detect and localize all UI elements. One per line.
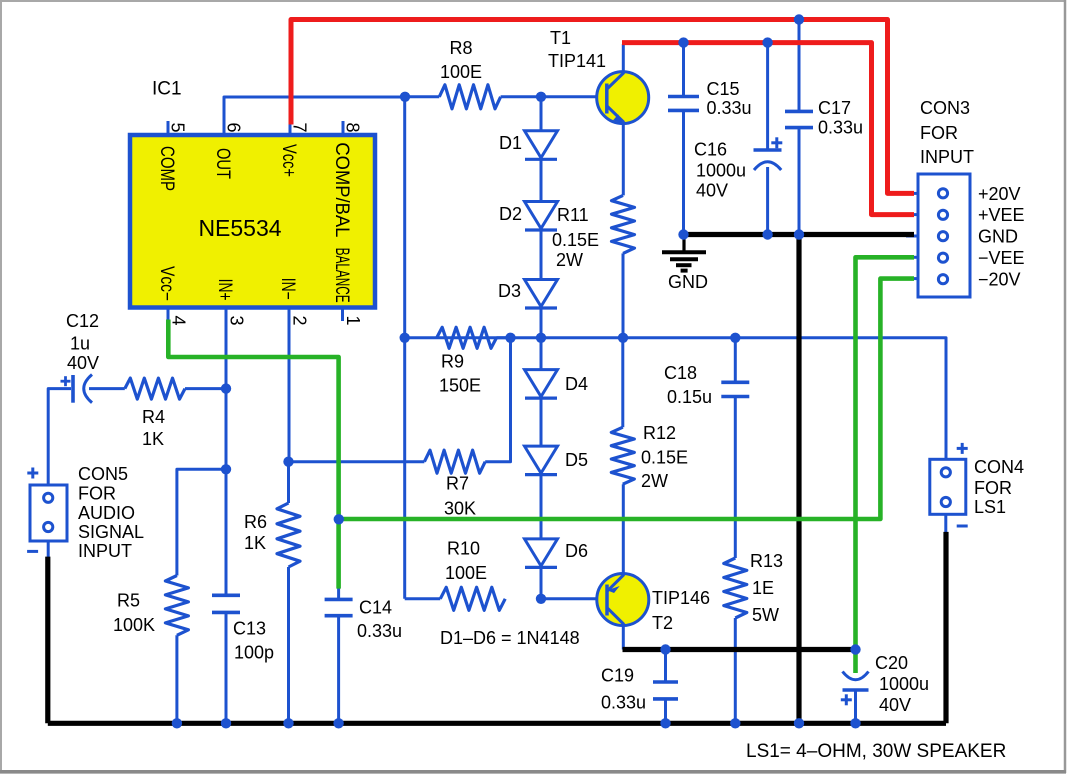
wire +VEE red: [622, 43, 914, 215]
resistor R11: [612, 195, 635, 253]
junction rail C18: [730, 333, 740, 343]
svg-text:R8: R8: [449, 38, 472, 58]
svg-text:C20: C20: [875, 653, 908, 673]
svg-text:Vcc−: Vcc−: [156, 266, 177, 301]
wire D5 to D6: [540, 475, 543, 539]
svg-text:0.15E: 0.15E: [552, 230, 599, 250]
pin 3 stub: [225, 306, 228, 322]
svg-text:100E: 100E: [445, 563, 487, 583]
op-amp IC1 NE5534 body: [130, 135, 375, 308]
CON5 plus sign: [27, 472, 38, 475]
wire T2 collector down: [622, 625, 625, 650]
wire -20V green: [339, 279, 914, 519]
svg-text:INPUT: INPUT: [920, 147, 974, 167]
svg-text:1000u: 1000u: [696, 161, 746, 181]
svg-text:6: 6: [224, 123, 244, 133]
wire output rail: [405, 338, 946, 460]
resistor R6: [277, 503, 300, 567]
svg-text:5: 5: [168, 123, 188, 133]
pin 7 stub: [289, 124, 292, 137]
svg-text:D1–D6 = 1N4148: D1–D6 = 1N4148: [440, 628, 580, 648]
wire CON4 bottom stub: [944, 514, 947, 533]
capacitor C20 polarized: [843, 672, 869, 680]
svg-text:R5: R5: [117, 591, 140, 611]
resistor R4: [125, 378, 185, 399]
ground symbol GND: [682, 236, 685, 252]
wire D2 to D3: [540, 231, 543, 280]
connector CON4 body: [930, 459, 966, 514]
wire black vertical GND to bus: [796, 235, 801, 724]
diode D5: [525, 446, 558, 473]
resistor R13: [724, 558, 747, 618]
capacitor C12 polarized: [71, 375, 75, 403]
svg-text:D3: D3: [498, 281, 521, 301]
svg-text:100p: 100p: [234, 642, 274, 662]
pin 4 stub: [167, 306, 170, 322]
wire C17 top lead: [798, 20, 801, 112]
capacitor C18: [721, 380, 749, 384]
wire C15 top lead: [682, 43, 685, 97]
junction bus C14: [333, 718, 343, 728]
wire C12 to R4: [89, 387, 125, 390]
svg-text:T1: T1: [550, 28, 571, 48]
svg-text:2: 2: [290, 316, 310, 326]
wire R9 right to R7: [485, 338, 510, 462]
wire T1 collector up: [622, 44, 625, 73]
svg-text:INPUT: INPUT: [78, 541, 132, 561]
svg-text:1E: 1E: [752, 578, 774, 598]
wire D6 to R10 node: [540, 568, 543, 599]
wire rail to C18: [734, 338, 737, 383]
svg-text:IN+: IN+: [214, 279, 235, 301]
svg-text:AUDIO: AUDIO: [78, 503, 135, 523]
junction C16 GND: [762, 229, 772, 239]
capacitor C13: [212, 593, 240, 597]
svg-text:R7: R7: [446, 474, 469, 494]
svg-text:0.33u: 0.33u: [818, 118, 863, 138]
capacitor C14: [325, 598, 353, 602]
wire C16 top lead: [766, 43, 769, 150]
svg-text:IC1: IC1: [152, 79, 182, 100]
svg-text:NE5534: NE5534: [198, 215, 281, 241]
wire D1 top: [540, 97, 543, 131]
wire R5 to bus: [175, 635, 178, 723]
svg-text:150E: 150E: [439, 376, 481, 396]
resistor R10: [440, 587, 505, 610]
svg-text:GND: GND: [978, 227, 1018, 247]
svg-text:1K: 1K: [142, 429, 164, 449]
wire C13 to bus: [225, 612, 228, 723]
junction C16 +VEE: [762, 37, 772, 47]
junction C15 +VEE: [678, 37, 688, 47]
wire pin4 green: [168, 320, 338, 589]
wire R7 left to IN-: [289, 460, 425, 463]
svg-text:100K: 100K: [113, 615, 155, 635]
wire R6 to bus: [287, 567, 290, 723]
junction rail D4: [536, 333, 546, 343]
svg-text:R9: R9: [441, 352, 464, 372]
svg-text:1u: 1u: [70, 334, 90, 354]
wire IN+ vertical: [225, 307, 228, 595]
wire D4 to D5: [540, 399, 543, 447]
svg-text:LS1= 4–OHM, 30W SPEAKER: LS1= 4–OHM, 30W SPEAKER: [746, 741, 1006, 762]
svg-text:C13: C13: [233, 618, 266, 638]
wire C17 to GND line: [798, 128, 801, 235]
junction C17 GND: [794, 229, 804, 239]
capacitor C16 polarized: [754, 148, 782, 152]
resistor R7: [424, 450, 485, 473]
wire CON5 plus to C12: [48, 389, 71, 485]
svg-text:R6: R6: [244, 512, 267, 532]
junction IN+ R5 branch: [221, 464, 231, 474]
junction C19 top: [660, 644, 670, 654]
junction bus GND line: [794, 718, 804, 728]
junction IN- node: [283, 457, 293, 467]
wire -VEE green: [856, 257, 915, 673]
svg-text:FOR: FOR: [974, 478, 1012, 498]
wire C20 to bus: [854, 690, 857, 723]
resistor R9: [437, 327, 497, 348]
junction C15 GND: [678, 229, 688, 239]
wire C15 to GND line: [682, 110, 685, 234]
svg-text:BALANCE: BALANCE: [331, 248, 352, 303]
svg-text:C12: C12: [66, 311, 99, 331]
junction rail left: [400, 333, 410, 343]
svg-text:D2: D2: [499, 204, 522, 224]
wire C14 to bus: [337, 616, 340, 724]
svg-text:COMP/BAL: COMP/BAL: [331, 142, 352, 237]
wire R13 to bus: [734, 618, 737, 723]
svg-text:LS1: LS1: [974, 497, 1006, 517]
svg-text:D1: D1: [499, 133, 522, 153]
junction bus R13: [730, 718, 740, 728]
svg-text:T2: T2: [652, 613, 673, 633]
capacitor C17: [785, 110, 813, 114]
wire IN- vertical: [288, 307, 291, 462]
wire R11 to output rail: [622, 253, 625, 337]
pin 2 stub: [288, 306, 291, 322]
svg-text:3: 3: [227, 316, 247, 326]
svg-text:2W: 2W: [556, 250, 583, 270]
svg-text:100E: 100E: [440, 62, 482, 82]
wire R4 to IN+ node: [185, 387, 226, 390]
svg-text:SIGNAL: SIGNAL: [78, 522, 144, 542]
svg-text:TIP141: TIP141: [548, 51, 606, 71]
wire D3 to rail: [540, 309, 543, 338]
svg-text:40V: 40V: [879, 695, 911, 715]
svg-text:CON3: CON3: [920, 98, 970, 118]
svg-text:5W: 5W: [752, 605, 779, 625]
svg-text:CON4: CON4: [974, 457, 1024, 477]
svg-text:GND: GND: [668, 272, 708, 292]
svg-text:7: 7: [290, 123, 310, 133]
svg-text:C18: C18: [664, 363, 697, 383]
svg-text:0.15u: 0.15u: [667, 387, 712, 407]
CON5 minus sign: [27, 550, 38, 553]
svg-text:R10: R10: [447, 539, 480, 559]
svg-text:C16: C16: [694, 140, 727, 160]
resistor R8: [439, 85, 500, 109]
junction R8 left: [400, 92, 410, 102]
wire R8 to T1 base: [541, 95, 597, 98]
wire IN- to R6: [287, 462, 290, 503]
pin 5 stub: [167, 121, 170, 137]
svg-text:COMP: COMP: [156, 146, 177, 191]
svg-text:CON5: CON5: [78, 464, 128, 484]
connector CON5 body: [30, 485, 67, 541]
connector CON3 body: [918, 174, 970, 297]
svg-text:+20V: +20V: [978, 184, 1021, 204]
pin 8 stub: [342, 121, 345, 137]
wire C16 to GND line: [766, 167, 769, 235]
pin 1 stub: [341, 306, 344, 322]
svg-text:8: 8: [343, 123, 363, 133]
diode D6: [525, 539, 558, 566]
svg-text:R12: R12: [643, 423, 676, 443]
svg-text:R4: R4: [142, 407, 165, 427]
junction R4 IN+: [221, 383, 231, 393]
CON4 plus sign: [957, 447, 968, 450]
junction D1 top: [536, 92, 546, 102]
wire R5 branch: [177, 469, 226, 575]
CON4 minus sign: [957, 525, 968, 528]
svg-text:4: 4: [169, 316, 189, 326]
wire CON5 minus stub: [47, 541, 50, 558]
svg-text:R13: R13: [750, 551, 783, 571]
svg-text:1K: 1K: [244, 533, 266, 553]
svg-text:IN−: IN−: [277, 278, 298, 300]
wire rail to D4: [540, 338, 543, 370]
wire R10 to T2 base: [541, 597, 597, 600]
svg-text:40V: 40V: [696, 181, 728, 201]
junction rail R9 right: [505, 333, 515, 343]
capacitor C19: [653, 680, 678, 684]
junction D6 R10 T2 base: [536, 594, 546, 604]
wire ground bus: [48, 721, 946, 726]
transistor T2 TIP146: [597, 574, 649, 626]
junction C17 +20V: [794, 14, 804, 24]
svg-text:TIP146: TIP146: [652, 588, 710, 608]
svg-text:FOR: FOR: [78, 484, 116, 504]
svg-text:C14: C14: [359, 598, 392, 618]
diode D4: [525, 370, 558, 397]
wire CON4 black to bus: [943, 532, 948, 723]
diode D3: [525, 280, 558, 307]
resistor R12: [611, 427, 634, 484]
svg-text:30K: 30K: [444, 498, 476, 518]
svg-text:D4: D4: [565, 374, 588, 394]
svg-text:0.33u: 0.33u: [707, 98, 752, 118]
svg-text:40V: 40V: [67, 353, 99, 373]
svg-text:+VEE: +VEE: [978, 205, 1025, 225]
svg-text:D6: D6: [565, 541, 588, 561]
diode D2: [525, 202, 558, 229]
wire R10 left lead: [405, 597, 441, 600]
svg-text:0.15E: 0.15E: [641, 448, 688, 468]
junction green node: [334, 514, 344, 524]
svg-text:−VEE: −VEE: [978, 248, 1025, 268]
svg-text:0.33u: 0.33u: [357, 621, 402, 641]
svg-text:Vcc+: Vcc+: [278, 144, 299, 177]
svg-text:OUT: OUT: [212, 148, 233, 179]
wire vertical feedback column: [403, 97, 406, 599]
wire C19 to bus: [664, 699, 667, 723]
wire rail to R12: [621, 338, 624, 427]
wire D1 to D2: [540, 160, 543, 202]
junction bus C20: [850, 718, 860, 728]
wire +20V red: [291, 20, 914, 194]
pin 6 stub and wire to R8 junction: [224, 97, 405, 137]
svg-text:R11: R11: [557, 205, 589, 225]
junction bus R5: [172, 718, 182, 728]
wire C19 top lead: [664, 650, 667, 683]
capacitor C15: [668, 95, 699, 99]
wire C18 to R13: [734, 397, 737, 559]
junction C20 green: [850, 644, 860, 654]
junction bus C13: [221, 718, 231, 728]
wire R8 leads: [405, 95, 439, 98]
svg-text:FOR: FOR: [920, 123, 958, 143]
junction rail R11 R12: [618, 333, 628, 343]
svg-text:C15: C15: [707, 79, 740, 99]
svg-text:2W: 2W: [641, 471, 668, 491]
svg-text:C19: C19: [601, 666, 634, 686]
transistor T1 TIP141: [597, 72, 649, 124]
wire black T2 line: [623, 647, 859, 652]
junction bus R6: [283, 718, 293, 728]
wire R12 to T2 emitter: [622, 484, 625, 574]
resistor R5: [165, 576, 188, 636]
svg-text:0.33u: 0.33u: [601, 693, 646, 713]
junction bus C19: [660, 718, 670, 728]
wire T1 emitter to R11: [622, 123, 625, 196]
wire CON5 black down: [45, 557, 50, 724]
svg-text:C17: C17: [818, 98, 851, 118]
wire GND black line: [682, 232, 915, 237]
svg-text:D5: D5: [565, 450, 588, 470]
wire C14 top stub: [337, 587, 340, 599]
svg-text:1000u: 1000u: [879, 674, 929, 694]
svg-text:−20V: −20V: [978, 270, 1021, 290]
svg-text:1: 1: [343, 316, 363, 326]
diode D1: [525, 131, 558, 158]
